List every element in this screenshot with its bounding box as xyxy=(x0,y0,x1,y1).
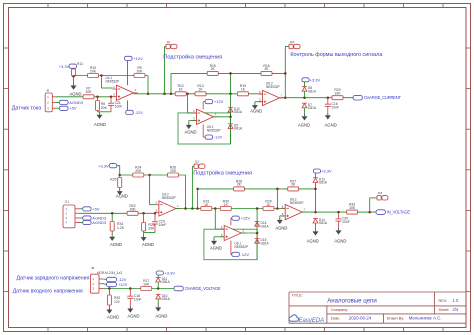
svg-text:Подстройка смещения: Подстройка смещения xyxy=(193,170,252,177)
svg-text:+3.3V: +3.3V xyxy=(164,271,175,276)
svg-text:Датчик зарядного напряжения: Датчик зарядного напряжения xyxy=(17,276,90,282)
svg-text:1K: 1K xyxy=(204,203,209,207)
svg-text:+12V: +12V xyxy=(118,282,128,287)
svg-text:20K: 20K xyxy=(135,169,142,173)
svg-text:G81A: G81A xyxy=(319,181,328,185)
svg-text:Sheet:: Sheet: xyxy=(439,308,450,312)
svg-text:1.2K: 1.2K xyxy=(117,226,125,230)
svg-text:AGND: AGND xyxy=(155,314,167,319)
svg-text:1K: 1K xyxy=(224,203,229,207)
svg-text:-12V: -12V xyxy=(241,252,250,257)
svg-text:G81A: G81A xyxy=(319,221,328,225)
svg-text:20K: 20K xyxy=(101,106,108,110)
svg-text:1K: 1K xyxy=(266,203,271,207)
svg-text:AGND: AGND xyxy=(210,245,222,250)
svg-text:REV:: REV: xyxy=(439,299,448,303)
svg-text:NE5532P: NE5532P xyxy=(235,245,249,249)
svg-text:+12V: +12V xyxy=(133,56,143,61)
svg-text:+3.3V: +3.3V xyxy=(310,77,321,82)
svg-text:AGND: AGND xyxy=(275,225,287,230)
svg-text:Контроль формы выходного сигна: Контроль формы выходного сигнала xyxy=(290,52,382,58)
svg-text:AGND: AGND xyxy=(184,129,196,134)
svg-text:NE5532P: NE5532P xyxy=(290,201,304,205)
svg-text:1.0: 1.0 xyxy=(453,298,459,303)
svg-text:AGND: AGND xyxy=(250,108,262,113)
svg-text:10K: 10K xyxy=(349,206,356,210)
svg-text:EasyEDA: EasyEDA xyxy=(299,318,325,324)
svg-text:NE5532P: NE5532P xyxy=(207,129,221,133)
svg-text:20K: 20K xyxy=(148,227,155,231)
svg-text:+3.3V: +3.3V xyxy=(98,163,109,168)
svg-text:20K: 20K xyxy=(90,69,97,73)
svg-text:G81A: G81A xyxy=(261,224,270,228)
svg-text:AGND: AGND xyxy=(307,238,319,243)
svg-text:2/4: 2/4 xyxy=(453,307,459,312)
svg-text:+12V: +12V xyxy=(241,216,251,221)
svg-text:10K: 10K xyxy=(143,283,150,287)
svg-text:CHARGE_VOLTAGE: CHARGE_VOLTAGE xyxy=(185,286,221,291)
svg-text:2K: 2K xyxy=(264,67,269,71)
svg-text:20K: 20K xyxy=(130,208,137,212)
svg-text:2K: 2K xyxy=(211,67,216,71)
svg-text:R11: R11 xyxy=(77,62,83,66)
svg-text:J12: J12 xyxy=(195,160,200,164)
svg-text:10nF: 10nF xyxy=(159,223,167,227)
svg-text:G81A: G81A xyxy=(234,110,243,114)
svg-text:NE5532P: NE5532P xyxy=(266,85,280,89)
svg-text:Подстройка смещения: Подстройка смещения xyxy=(163,54,222,61)
svg-text:TITLE:: TITLE: xyxy=(292,294,303,298)
svg-text:AGND: AGND xyxy=(298,123,310,128)
svg-text:10nF: 10nF xyxy=(134,297,142,301)
svg-text:HDR-M-2.54_1x3: HDR-M-2.54_1x3 xyxy=(97,271,122,275)
svg-text:G81A: G81A xyxy=(234,127,243,131)
svg-text:20K: 20K xyxy=(170,169,177,173)
svg-text:-12V: -12V xyxy=(135,110,144,115)
svg-text:AGND: AGND xyxy=(94,122,106,127)
svg-text:20K: 20K xyxy=(85,90,92,94)
svg-text:-12V: -12V xyxy=(214,135,223,140)
svg-text:10nF: 10nF xyxy=(331,105,339,109)
svg-text:1K: 1K xyxy=(179,88,184,92)
svg-text:IN_VOLTAGE: IN_VOLTAGE xyxy=(387,210,411,215)
svg-text:+3.3V: +3.3V xyxy=(321,169,332,174)
svg-text:J9: J9 xyxy=(167,40,171,44)
svg-text:NE5532P: NE5532P xyxy=(162,196,176,200)
svg-text:+5V: +5V xyxy=(69,106,77,111)
svg-text:+3.3V: +3.3V xyxy=(59,64,70,69)
svg-text:10K: 10K xyxy=(334,92,341,96)
svg-text:G81A: G81A xyxy=(308,106,317,110)
svg-text:AGND: AGND xyxy=(334,238,346,243)
svg-text:2K: 2K xyxy=(237,183,242,187)
svg-text:10nF: 10nF xyxy=(342,220,350,224)
svg-text:Company:: Company: xyxy=(331,308,348,312)
svg-text:G81A: G81A xyxy=(261,241,270,245)
svg-text:J11: J11 xyxy=(65,200,70,204)
svg-text:AGND: AGND xyxy=(127,314,139,319)
svg-text:NE5532P: NE5532P xyxy=(106,79,120,83)
svg-text:AGND: AGND xyxy=(325,123,337,128)
svg-text:+5V: +5V xyxy=(92,206,100,211)
svg-text:G81A: G81A xyxy=(162,297,171,301)
svg-text:Датчик тока: Датчик тока xyxy=(12,106,42,112)
svg-text:AGND: AGND xyxy=(110,242,122,247)
svg-text:AGND: AGND xyxy=(69,91,81,96)
svg-text:1K: 1K xyxy=(241,88,246,92)
svg-text:120: 120 xyxy=(114,300,120,304)
svg-text:G81A: G81A xyxy=(308,89,317,93)
svg-text:Аналоговые цепи: Аналоговые цепи xyxy=(327,297,377,304)
svg-text:Date:: Date: xyxy=(331,317,340,321)
svg-text:AGND: AGND xyxy=(116,194,128,199)
svg-text:Мельников А.С.: Мельников А.С. xyxy=(409,316,442,321)
svg-text:2020-06-24: 2020-06-24 xyxy=(349,316,372,321)
svg-text:R25: R25 xyxy=(110,178,116,182)
svg-text:J15: J15 xyxy=(378,191,383,195)
svg-text:Датчик входного напряжения: Датчик входного напряжения xyxy=(13,288,83,294)
svg-text:J6: J6 xyxy=(46,89,50,93)
svg-text:AGND3: AGND3 xyxy=(69,100,84,105)
svg-text:G81A: G81A xyxy=(162,280,171,284)
svg-text:AGND3: AGND3 xyxy=(92,220,107,225)
svg-text:2K: 2K xyxy=(291,183,296,187)
svg-text:J10: J10 xyxy=(290,40,295,44)
svg-text:AGND: AGND xyxy=(142,242,154,247)
svg-text:CHARGE_CURRENT: CHARGE_CURRENT xyxy=(364,95,402,100)
svg-text:20K: 20K xyxy=(136,69,143,73)
svg-text:J8: J8 xyxy=(91,266,95,270)
svg-text:AGND: AGND xyxy=(107,315,119,320)
svg-text:1K: 1K xyxy=(198,88,203,92)
svg-text:+12V: +12V xyxy=(214,99,224,104)
svg-text:Drawn By:: Drawn By: xyxy=(387,317,405,321)
svg-text:10nF: 10nF xyxy=(115,105,123,109)
